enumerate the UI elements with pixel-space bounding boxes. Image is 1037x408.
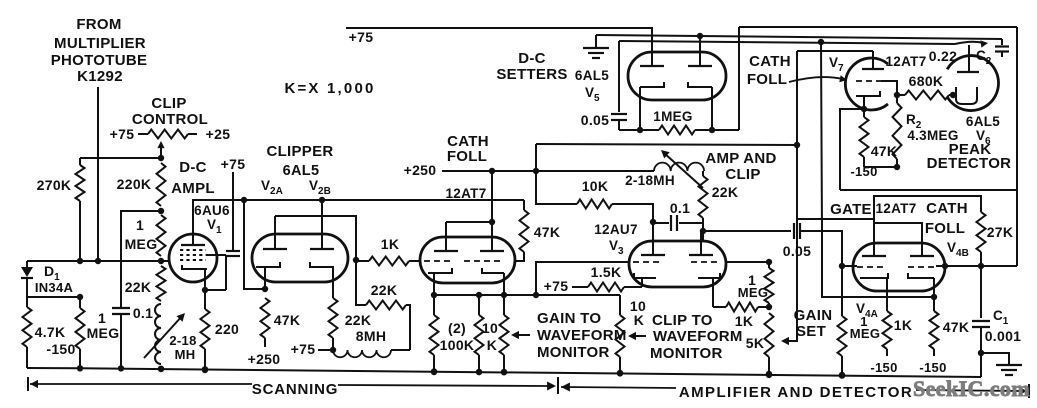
tube V3 plates	[641, 254, 665, 256]
svg-text:D-C: D-C	[179, 159, 207, 176]
wire line y41 (0.05 to V6 plate)	[619, 41, 955, 44]
wire V3 right grid out	[726, 261, 769, 263]
resistor 1 MEG (V4A grid)	[841, 266, 843, 316]
svg-text:2-18MH: 2-18MH	[625, 173, 675, 188]
svg-text:MULTIPLIER: MULTIPLIER	[54, 35, 146, 52]
wire y158 junction line	[80, 157, 161, 159]
svg-text:22K: 22K	[371, 282, 398, 298]
wire line y144	[536, 144, 797, 145]
svg-text:12AT7: 12AT7	[885, 54, 926, 69]
wire V4 right grid out	[936, 265, 981, 267]
svg-text:K: K	[487, 337, 497, 353]
svg-text:CONTROL: CONTROL	[132, 111, 208, 128]
svg-text:AMPLIFIER AND DETECTOR: AMPLIFIER AND DETECTOR	[679, 384, 913, 401]
svg-text:CATH: CATH	[926, 200, 968, 217]
svg-text:AMPL: AMPL	[171, 180, 215, 197]
svg-text:FOLL: FOLL	[747, 71, 787, 88]
tube V5 cathodes	[640, 82, 664, 87]
svg-text:100K: 100K	[440, 337, 475, 353]
svg-text:K: K	[634, 312, 644, 328]
resistor 1MEG (V5)	[659, 126, 695, 135]
capacitor 0.1 (V3)	[653, 222, 669, 224]
wire 5K wiper / gate bias riser x797	[786, 51, 797, 341]
svg-text:22K: 22K	[345, 312, 372, 328]
svg-text:1K: 1K	[381, 236, 400, 252]
tube V7 (half 12AT7)	[845, 58, 888, 110]
svg-text:10K: 10K	[582, 178, 609, 194]
wire peak box bottom and right edge	[840, 189, 1017, 191]
svg-text:1: 1	[98, 310, 106, 326]
wire y297 junction	[27, 296, 80, 298]
wire V2A grid-cathode tie	[244, 200, 265, 289]
resistor 22K (feedback to plate node)	[406, 305, 410, 350]
tube V1 plate bar	[181, 244, 205, 246]
wire +250 rail	[442, 170, 536, 172]
wire phototube input vertical	[97, 87, 99, 261]
svg-text:-150: -150	[919, 360, 946, 375]
svg-text:SET: SET	[796, 323, 826, 340]
svg-text:0.05: 0.05	[581, 112, 609, 128]
tube V4 12AT7 envelope	[853, 243, 945, 291]
resistor 1 MEG (V3 grid)	[768, 262, 770, 268]
svg-text:0.1: 0.1	[133, 305, 153, 321]
tube V1 cathode	[182, 265, 207, 269]
svg-text:12AU7: 12AU7	[594, 222, 638, 237]
wire V5 bottom rail	[619, 129, 659, 131]
svg-text:+75: +75	[110, 126, 135, 142]
resistor 47K (CF grid load)	[523, 200, 525, 210]
wire peak box left edge	[840, 109, 864, 190]
svg-text:GAIN: GAIN	[794, 307, 833, 324]
svg-text:47K: 47K	[943, 319, 970, 335]
node 10 K pot (clip to waveform)	[619, 295, 621, 315]
svg-text:4.7K: 4.7K	[35, 324, 66, 340]
resistor 47K (V4B cathode)	[930, 311, 939, 349]
wire top line to right edge	[739, 26, 1017, 28]
wire pointer arc to V7	[789, 77, 843, 82]
tube V7 cathode	[856, 91, 880, 96]
resistor 220K	[157, 163, 166, 206]
svg-text:MEG: MEG	[87, 325, 120, 341]
resistor 47K (V2A cathode)	[261, 298, 270, 338]
tube V6 6AL5 (half)	[947, 56, 998, 111]
svg-text:SeekIC.com: SeekIC.com	[913, 376, 1030, 401]
svg-text:+75: +75	[349, 29, 374, 45]
resistor R2 4.3MEG	[893, 103, 902, 159]
svg-text:CLIP: CLIP	[151, 95, 186, 112]
svg-text:CLIPPER: CLIPPER	[266, 143, 333, 160]
svg-text:+250: +250	[248, 351, 281, 367]
tube CF grids	[424, 260, 452, 262]
wire right riser x739	[738, 27, 740, 130]
svg-text:PHOTOTUBE: PHOTOTUBE	[51, 52, 148, 69]
tube V3 cathodes	[634, 273, 656, 278]
svg-text:47K: 47K	[274, 312, 301, 328]
svg-text:5K: 5K	[746, 335, 765, 351]
svg-text:CATH: CATH	[749, 53, 791, 70]
svg-text:MH: MH	[175, 347, 196, 362]
variable inductor 2-18MH (V3)	[654, 163, 704, 171]
wire grid input line y261	[27, 260, 170, 262]
tube V2 cathodes	[256, 262, 280, 267]
svg-text:+75: +75	[221, 156, 246, 172]
tube V3 grids	[633, 261, 661, 263]
wire long line dots	[241, 197, 247, 203]
variable inductor 2-18 MH (left)	[155, 304, 161, 364]
resistor 27K	[977, 212, 986, 252]
svg-text:MEG: MEG	[125, 236, 158, 252]
svg-text:270K: 270K	[37, 177, 72, 193]
tube CF plates	[434, 250, 458, 252]
svg-text:0.001: 0.001	[985, 328, 1022, 344]
tube V6 cathode	[956, 87, 977, 104]
wire V4 plate loop	[874, 196, 981, 243]
wire V4 left grid in	[842, 265, 857, 267]
svg-text:K=X 1,000: K=X 1,000	[284, 80, 375, 97]
tube V4 plates	[862, 255, 886, 257]
wire x822 riser	[821, 42, 934, 297]
diode D1 IN34A	[26, 261, 28, 267]
tube V4 grids	[857, 266, 884, 268]
svg-text:680K: 680K	[909, 73, 944, 89]
svg-text:0.1: 0.1	[670, 200, 690, 216]
svg-text:6AL5: 6AL5	[966, 114, 1000, 129]
svg-text:D-C: D-C	[518, 50, 546, 67]
wire V1 plate stem and long line y200	[193, 200, 524, 245]
svg-text:1K: 1K	[735, 313, 754, 329]
svg-text:1.5K: 1.5K	[591, 264, 622, 280]
resistor 680K	[897, 94, 905, 96]
svg-text:6AL5: 6AL5	[575, 68, 609, 83]
svg-text:FOLL: FOLL	[447, 148, 487, 165]
svg-text:-150: -150	[46, 341, 75, 357]
wire V2A plate loop	[275, 216, 356, 260]
node SCANNING dimension line	[27, 377, 29, 391]
svg-text:0.22: 0.22	[929, 48, 957, 64]
resistor 1K (to cathode follower grid)	[369, 257, 409, 266]
svg-text:22K: 22K	[712, 184, 739, 200]
svg-text:WAVEFORM: WAVEFORM	[537, 327, 627, 344]
svg-text:SCANNING: SCANNING	[252, 381, 338, 398]
svg-text:1K: 1K	[894, 317, 913, 333]
wire clip-control wiper	[160, 144, 162, 158]
svg-text:IN34A: IN34A	[35, 280, 74, 295]
tube V5 plates	[640, 65, 664, 67]
svg-text:FROM: FROM	[76, 16, 121, 33]
svg-text:SETTERS: SETTERS	[496, 66, 567, 83]
potentiometer 10K gain	[503, 295, 505, 315]
node AMPLIFIER AND DETECTOR dimension line	[561, 383, 570, 392]
svg-text:GATE: GATE	[830, 201, 872, 218]
svg-text:12AT7: 12AT7	[875, 201, 916, 216]
resistor 22K (V2B cathode)	[329, 298, 338, 338]
tube V1 grids	[180, 249, 206, 251]
capacitor C1 0.001	[980, 266, 982, 318]
tube V5 6AL5 envelope	[628, 52, 726, 100]
inductor 8MH	[333, 350, 391, 357]
svg-text:+25: +25	[206, 126, 231, 142]
svg-text:K1292: K1292	[77, 68, 123, 85]
svg-text:1: 1	[136, 217, 144, 233]
resistor (2)100K second	[478, 295, 480, 315]
resistor 1 MEG (lower left)	[79, 297, 81, 308]
svg-text:10: 10	[482, 320, 498, 336]
potentiometer 5K	[765, 313, 774, 357]
wire common bottom bus	[27, 368, 981, 377]
svg-text:FOLL: FOLL	[925, 220, 965, 237]
svg-text:CLIP: CLIP	[725, 166, 760, 183]
ground (output)	[981, 353, 1009, 364]
svg-text:GAIN TO: GAIN TO	[537, 310, 601, 327]
tube V6 plate	[968, 45, 970, 72]
wire gate input line y219	[798, 218, 874, 220]
resistor 1 MEG (upper left)	[157, 215, 166, 256]
svg-text:MEG: MEG	[738, 285, 769, 300]
wire CF plate tie	[446, 221, 492, 223]
tube CF cathodes	[428, 268, 452, 273]
svg-text:-150: -150	[850, 164, 877, 179]
tube V7 grid	[856, 80, 881, 82]
svg-text:27K: 27K	[987, 224, 1014, 240]
wire 27K junction to right edge	[981, 265, 1017, 267]
wire +75 to screen grid	[232, 172, 234, 251]
resistor 1K (V3 cathode)	[713, 306, 726, 308]
resistor 1K (V4A cathode)	[883, 311, 892, 349]
capacitor 0.05 (V5)	[611, 113, 627, 115]
wire +250 branch up to y144 line	[535, 144, 537, 171]
svg-text:0.05: 0.05	[783, 243, 811, 259]
resistor 47K (V7 cathode)	[863, 109, 865, 117]
svg-text:1MEG: 1MEG	[653, 109, 692, 124]
wire cathode rail y295	[434, 294, 620, 296]
wire +75 top rail	[346, 27, 653, 29]
svg-text:(2): (2)	[448, 320, 466, 336]
svg-text:+75: +75	[544, 278, 569, 294]
svg-text:22K: 22K	[125, 279, 152, 295]
svg-text:2-18: 2-18	[169, 333, 196, 348]
capacitor 0.1 (left)	[112, 307, 130, 309]
svg-text:MEG: MEG	[850, 326, 881, 341]
resistor 22K (left chain)	[157, 266, 166, 301]
tube V3 12AU7 envelope	[629, 241, 726, 287]
svg-text:+75: +75	[291, 341, 316, 357]
svg-text:12AT7: 12AT7	[445, 186, 486, 201]
svg-text:MONITOR: MONITOR	[650, 345, 723, 362]
tube V2 6AL5 envelope	[252, 234, 348, 282]
svg-text:220: 220	[215, 321, 239, 337]
tube V2 plates	[263, 248, 287, 250]
svg-text:6AL5: 6AL5	[283, 163, 320, 179]
svg-text:220K: 220K	[117, 176, 152, 192]
svg-text:8MH: 8MH	[356, 328, 386, 344]
resistor 22K (V3 plate)	[702, 171, 704, 176]
wire clip wiper arrow	[632, 335, 646, 337]
tube V-CF 12AT7 envelope	[420, 237, 515, 283]
resistor 4.7K	[26, 297, 28, 307]
tube V1 6AU6	[169, 234, 217, 282]
wire bypass branch to 0.1 cap	[121, 211, 161, 307]
wire CF output to V3 grid	[536, 262, 629, 295]
svg-text:WAVEFORM: WAVEFORM	[653, 328, 743, 345]
svg-text:AMP AND: AMP AND	[705, 150, 776, 167]
resistor 270K	[79, 158, 81, 165]
capacitor 0.05 (V3 to gate)	[703, 230, 791, 232]
svg-text:-150: -150	[870, 360, 897, 375]
svg-text:+250: +250	[404, 162, 437, 178]
svg-text:6AU6: 6AU6	[194, 203, 230, 218]
wire -150 connection	[864, 166, 897, 168]
svg-text:MONITOR: MONITOR	[537, 344, 610, 361]
resistor (2)100K first	[433, 295, 435, 315]
ground (D-C setters)	[595, 35, 597, 47]
tube V4 cathodes	[860, 273, 888, 278]
wire V7 plate line	[797, 50, 873, 52]
wire 0.05 drop	[618, 41, 620, 112]
svg-text:47K: 47K	[534, 224, 561, 240]
capacitor C2 0.22	[1001, 39, 1003, 45]
wire gain wiper arrow	[515, 334, 530, 336]
wire line y35 ground rail	[596, 35, 1002, 39]
svg-text:CLIP TO: CLIP TO	[652, 312, 713, 329]
resistor 10K (V3 left plate)	[536, 171, 577, 204]
svg-text:DETECTOR: DETECTOR	[927, 155, 1012, 172]
svg-text:47K: 47K	[871, 143, 898, 159]
wire +250 line to coil	[536, 170, 654, 172]
resistor 220	[204, 290, 206, 309]
